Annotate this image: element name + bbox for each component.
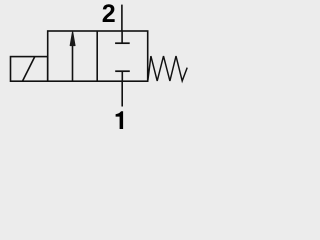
svg-text:2: 2 [102,0,116,28]
